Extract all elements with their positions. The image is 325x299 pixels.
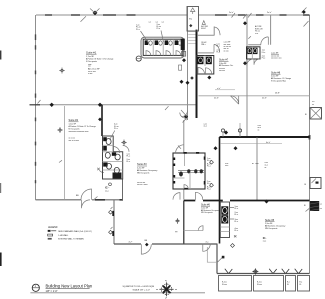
svg-text:Suite #6: Suite #6 [201, 203, 210, 206]
svg-text:xx-x: xx-x [225, 165, 228, 167]
svg-text:Suite #2: Suite #2 [69, 118, 79, 122]
svg-text:xx-x: xx-x [263, 240, 266, 242]
svg-text:SCALE 1/8" = 1'-0": SCALE 1/8" = 1'-0" [132, 289, 150, 292]
svg-text:NN Occupants: NN Occupants [265, 227, 277, 230]
svg-text:xxx: xxx [88, 66, 91, 68]
svg-text:PL-x: PL-x [136, 29, 140, 31]
svg-text:FL-x: FL-x [235, 230, 239, 232]
svg-text:FL-x: FL-x [235, 214, 239, 216]
svg-text:x-x: x-x [320, 208, 322, 210]
svg-text:xx-x: xx-x [204, 126, 207, 128]
svg-text:Building New Layout Plan: Building New Layout Plan [46, 283, 93, 288]
svg-text:4'-x: 4'-x [206, 242, 209, 244]
svg-text:2x'-x": 2x'-x" [229, 12, 234, 14]
svg-text:NN Occupants: NN Occupants [201, 211, 213, 214]
svg-text:xxx xxx: xxx xxx [219, 70, 225, 72]
svg-text:4x'-x": 4x'-x" [266, 142, 271, 144]
svg-text:Suite #1: Suite #1 [86, 50, 97, 54]
svg-text:NN Occupants: NN Occupants [137, 172, 149, 175]
svg-text:FL-x: FL-x [127, 161, 131, 163]
svg-text:RM x: RM x [201, 44, 205, 46]
svg-text:x-x: x-x [312, 101, 314, 103]
svg-text:FL=xx: FL=xx [222, 284, 227, 286]
svg-text:FL-x: FL-x [207, 166, 211, 168]
svg-text:FL-x: FL-x [217, 52, 221, 54]
svg-text:LEGEND: LEGEND [48, 227, 58, 229]
svg-text:FL-x: FL-x [235, 221, 239, 223]
svg-text:N Occupants: N Occupants [86, 60, 97, 63]
svg-text:N Occupants Max: N Occupants Max [271, 80, 286, 83]
svg-text:FL-x: FL-x [262, 52, 266, 54]
svg-text:FL-x: FL-x [235, 208, 239, 210]
svg-text:FL: FL [300, 284, 302, 286]
svg-text:x xxx: x xxx [88, 73, 92, 75]
svg-text:Suite #8: Suite #8 [271, 71, 281, 74]
svg-text:xxxxxxxxx xxxxxxxx xxxx: xxxxxxxxx xxxxxxxx xxxx [69, 131, 89, 133]
svg-text:Suite #5: Suite #5 [265, 219, 275, 222]
svg-text:23'-8": 23'-8" [275, 92, 280, 94]
svg-text:x-x: x-x [162, 22, 164, 24]
svg-text:1/8" = 1'-0": 1/8" = 1'-0" [46, 290, 58, 293]
svg-text:SQ.METER TO SF = 0.0929 SQM: SQ.METER TO SF = 0.0929 SQM [122, 286, 154, 288]
svg-text:21'-3": 21'-3" [214, 98, 219, 100]
svg-text:1-HR WALL: 1-HR WALL [58, 234, 68, 237]
svg-text:21'-3": 21'-3" [262, 98, 267, 100]
svg-text:Suite #7: Suite #7 [219, 59, 229, 62]
svg-text:FL=xx: FL=xx [257, 284, 262, 286]
svg-text:NEW STANDARD WALL (2x4 @16 OC): NEW STANDARD WALL (2x4 @16 OC) [58, 230, 92, 233]
svg-text:FL-x: FL-x [262, 58, 266, 60]
svg-text:Suite #3: Suite #3 [137, 162, 147, 166]
svg-text:FL-x: FL-x [207, 189, 211, 191]
svg-text:x xx: x xx [255, 33, 258, 35]
svg-text:N Occupants: N Occupants [69, 127, 80, 130]
svg-text:FL-x: FL-x [217, 46, 221, 48]
svg-text:xxx xx x xxxx: xxx xx x xxxx [137, 184, 148, 186]
svg-text:4'-7": 4'-7" [129, 242, 133, 244]
svg-text:All Business Occ: All Business Occ [219, 64, 233, 67]
svg-text:PL-x: PL-x [114, 128, 118, 130]
svg-text:xx: xx [265, 167, 267, 169]
svg-text:xxx xx x xxxx: xxx xx x xxxx [69, 140, 80, 142]
svg-text:EXISTING WALL TO REMAIN: EXISTING WALL TO REMAIN [58, 238, 84, 241]
svg-text:xx xxx: xx xxx [224, 50, 229, 52]
svg-text:PL-x: PL-x [157, 28, 161, 30]
svg-text:xx-x: xx-x [105, 190, 109, 192]
svg-text:FL-x: FL-x [127, 156, 131, 158]
svg-text:xx: xx [258, 129, 260, 131]
svg-text:2x'-x": 2x'-x" [267, 12, 272, 14]
svg-text:xxx xxx x xxx: xxx xxx x xxx [271, 58, 282, 60]
svg-text:xx: xx [312, 104, 314, 106]
svg-text:IC--: IC-- [105, 185, 109, 189]
svg-text:x-x: x-x [320, 204, 322, 206]
svg-text:ELEC: ELEC [201, 28, 206, 30]
svg-text:FL: FL [287, 284, 289, 286]
svg-text:x-x: x-x [149, 22, 151, 24]
